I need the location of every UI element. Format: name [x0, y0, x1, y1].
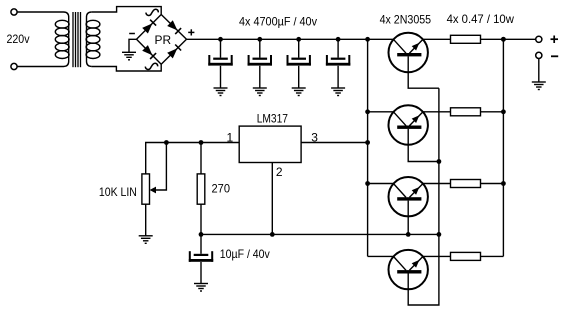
capacitor C3 4700uF/40v	[287, 55, 311, 66]
junction node cap C1	[218, 37, 223, 42]
wire Q4 emitter to R4	[423, 255, 451, 257]
wire to resistor 270	[200, 143, 202, 174]
terminal output +	[536, 36, 542, 42]
wire to capacitor 10uF	[200, 234, 202, 253]
junction output bus R2	[501, 109, 506, 114]
transformer secondary winding	[86, 12, 100, 67]
wire rail to C2	[259, 39, 261, 57]
bridge rectifier PR outline	[137, 15, 187, 65]
svg-text:PR: PR	[155, 33, 172, 47]
junction output bus R1	[501, 37, 506, 42]
svg-text:220v: 220v	[7, 32, 30, 46]
junction output bus at +	[501, 37, 506, 42]
ground at C3	[292, 88, 306, 96]
wire bridge negative to ground	[129, 39, 137, 52]
potentiometer wiper arrow	[150, 187, 156, 194]
wire - terminal to ground	[538, 59, 540, 82]
wire collector bus to Q3	[368, 183, 394, 185]
wire Q1 emitter to R1	[423, 38, 451, 40]
ground at C4	[331, 88, 345, 96]
wire main positive rail	[187, 38, 394, 40]
resistor R1 0.47/10w	[451, 35, 481, 43]
wire collector bus left	[367, 39, 369, 256]
wire collector bus to Q4	[368, 255, 394, 257]
wire R2 to output bus	[481, 111, 504, 113]
wire Q4 base	[408, 234, 439, 305]
svg-text:4x 2N3055: 4x 2N3055	[380, 13, 432, 27]
label plus at bridge	[188, 29, 194, 35]
wire pot to ground	[145, 204, 147, 236]
svg-text:4x 4700µF / 40v: 4x 4700µF / 40v	[239, 15, 317, 29]
wire 270 to adj rail	[200, 204, 202, 234]
capacitor C4 4700uF/40v	[326, 55, 350, 66]
terminal AC input top	[11, 9, 17, 15]
diode D4 bottom-right	[167, 45, 181, 59]
wire C1 to ground	[220, 66, 222, 88]
AC squiggle bottom	[145, 63, 157, 69]
wire R1 to output bus	[481, 38, 504, 40]
diode D3 left-bottom	[142, 45, 156, 59]
wire secondary top to bridge	[92, 7, 162, 15]
potentiometer 10K LIN body	[142, 174, 150, 204]
junction wiper branch	[164, 140, 169, 145]
wire to + terminal	[503, 38, 535, 40]
svg-text:10K LIN: 10K LIN	[99, 185, 137, 199]
wire secondary bottom to bridge	[92, 64, 162, 71]
ground at pot	[139, 236, 153, 244]
capacitor C2 4700uF/40v	[248, 55, 272, 66]
wire C2 to ground	[259, 66, 261, 88]
wire AC bottom	[17, 66, 63, 68]
wire Q3 emitter to R3	[423, 183, 451, 185]
svg-text:2: 2	[276, 165, 283, 179]
label + output	[551, 36, 559, 44]
wire Q1 base	[408, 56, 439, 88]
transistor Q2 2N3055	[389, 105, 428, 144]
wire base bus	[438, 88, 440, 234]
ground at 10uF	[194, 284, 208, 292]
wire Q3 base	[407, 201, 409, 235]
capacitor C1 4700uF/40v	[208, 55, 232, 66]
wire R3 to output bus	[481, 183, 504, 185]
junction node cap C4	[336, 37, 341, 42]
junction adj rail at pin2	[270, 232, 275, 237]
diode D1 left-top	[142, 20, 156, 34]
wire LM317 pin3 to collector bus	[301, 142, 368, 144]
AC squiggle top	[146, 9, 158, 15]
resistor 270	[197, 174, 205, 204]
wire C3 to ground	[298, 66, 300, 88]
wire 10uF to ground	[200, 262, 202, 284]
wire Q2 base	[408, 129, 439, 162]
wire Q2 emitter to R2	[423, 111, 451, 113]
transistor Q1 2N3055	[389, 33, 428, 72]
wire output bus right	[502, 39, 504, 256]
junction collector bus Q2	[365, 109, 370, 114]
diode D2 top-right	[167, 20, 181, 34]
junction adj rail at base bus	[437, 232, 442, 237]
ground at bridge	[122, 52, 136, 60]
junction 270 branch	[199, 140, 204, 145]
junction node cap C2	[257, 37, 262, 42]
wire LM317 pin2 down	[271, 163, 273, 235]
junction base bus Q2	[437, 159, 442, 164]
transistor Q3 2N3055	[389, 177, 428, 216]
resistor R2 0.47/10w	[451, 108, 481, 116]
ground at C1	[214, 88, 228, 96]
transistor Q4 2N3055	[389, 250, 428, 289]
svg-text:10µF / 40v: 10µF / 40v	[220, 247, 270, 261]
wire rail to C4	[337, 39, 339, 57]
wire C4 to ground	[337, 66, 339, 88]
wire rail to C1	[220, 39, 222, 57]
label minus at bridge	[129, 33, 135, 35]
regulator U1 LM317	[239, 126, 301, 162]
ground at C2	[253, 88, 267, 96]
label - output	[551, 55, 558, 57]
terminal output -	[536, 52, 542, 58]
svg-text:270: 270	[212, 182, 231, 196]
junction collector bus at LM317 pin3	[365, 140, 370, 145]
junction node cap C3	[296, 37, 301, 42]
transformer primary winding	[55, 12, 69, 67]
transformer core	[73, 12, 81, 67]
ground at output	[532, 82, 546, 90]
capacitor 10uF/40v	[189, 251, 213, 262]
wire R4 to output bus	[481, 255, 504, 257]
wire collector bus to Q2	[368, 111, 394, 113]
junction collector bus Q3	[365, 181, 370, 186]
wire wiper branch	[155, 143, 166, 191]
svg-text:LM317: LM317	[257, 112, 289, 126]
resistor R3 0.47/10w	[451, 180, 481, 188]
svg-text:4x 0.47 / 10w: 4x 0.47 / 10w	[447, 12, 515, 26]
wire LM317 pin1 to pot	[146, 143, 240, 174]
junction output bus R3	[501, 181, 506, 186]
wire adj output rail	[201, 233, 439, 235]
junction adj rail at 270	[199, 232, 204, 237]
wire rail to C3	[298, 39, 300, 57]
junction adj rail at Q3 base	[406, 232, 411, 237]
terminal AC input bottom	[11, 63, 17, 69]
junction collector bus at rail	[365, 37, 370, 42]
resistor R4 0.47/10w	[451, 252, 481, 260]
wire AC top	[17, 11, 63, 13]
